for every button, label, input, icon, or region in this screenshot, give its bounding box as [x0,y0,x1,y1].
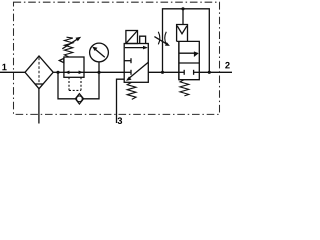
regulator adjustment arrow [62,37,81,49]
enclosure dash-dot frame [14,2,220,114]
valve V1 blocked inlet (on main line) [124,70,131,75]
node D (loop top tap) [181,7,184,10]
valve V2 open-position arrow [180,51,199,57]
bypass loop of soft-start valve V2 [163,9,210,73]
node A (bypass tap) [56,71,59,74]
port 1 label [2,64,6,70]
wire port1 to filter [0,71,25,73]
valve V1 blocked port (upper) [124,58,131,63]
pilot check valve of V2 [177,25,188,42]
wire filter to regulator [53,71,64,73]
check valve (bypass) [75,94,83,104]
filter F1 (diamond with element) [25,56,53,89]
valve V1 solenoid [126,31,138,44]
valve V1 manual override [140,36,146,43]
valve V1 return spring [127,82,136,99]
wire exhaust to port 3 [117,79,125,123]
node B (gauge tap) [97,71,100,74]
wire V1 to V2 [148,71,179,73]
regulator pilot dashed loop [69,77,81,90]
valve V1 body [124,44,148,83]
valve V2 divider [179,62,199,64]
valve V2 return spring [180,80,189,96]
wire V2 to port 2 [199,71,232,73]
regulator R1 body [64,57,84,77]
node E (outlet junction) [208,71,211,74]
gauge stem [98,62,100,72]
valve V2 blocked ports (closed position) [179,70,199,75]
condensate drain line [38,89,40,124]
valve V1 open-position arrow [125,46,148,50]
regulator flow path double arrow [64,71,84,75]
wire regulator to valve V1 [84,71,124,73]
regulator relief vent triangle [59,58,64,62]
port 3 label [118,117,123,124]
pressure gauge G1 [90,43,109,62]
regulator spring [64,37,72,57]
valve V2 body [177,41,200,79]
valve V1 exhaust diagonal [126,62,148,81]
node C (soft-start branch) [161,71,164,74]
throttle (adjustable restrictor) [154,32,170,46]
pilot stem [182,9,184,25]
relief bypass wire left [58,72,75,99]
port 2 label [225,62,229,68]
relief bypass wire right [84,72,99,99]
